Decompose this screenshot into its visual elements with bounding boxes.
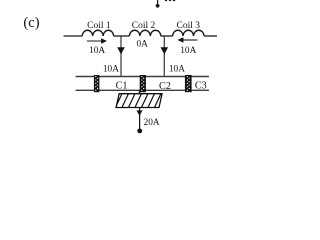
svg-text:10A: 10A — [180, 46, 196, 56]
svg-text:10A: 10A — [169, 65, 185, 75]
svg-text:Coil 2: Coil 2 — [132, 21, 156, 31]
svg-text:Coil 1: Coil 1 — [87, 21, 111, 31]
svg-text:10A: 10A — [103, 65, 119, 75]
svg-text:C3: C3 — [195, 81, 207, 92]
svg-text:(c): (c) — [23, 15, 39, 31]
svg-text:0A: 0A — [137, 40, 149, 50]
svg-text:C1: C1 — [116, 81, 128, 92]
svg-text:10A: 10A — [89, 46, 105, 56]
svg-text:20A: 20A — [144, 118, 160, 128]
svg-text:Coil 3: Coil 3 — [177, 21, 201, 31]
svg-text:C2: C2 — [159, 81, 171, 92]
